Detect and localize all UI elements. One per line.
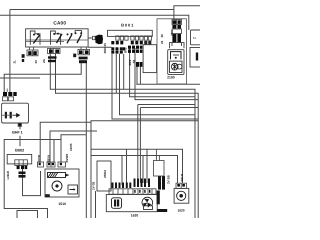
svg-text:1V0B: 1V0B <box>37 154 41 162</box>
G2 dark label rows <box>48 56 57 62</box>
G1 side label marks <box>22 54 25 62</box>
rotated wire code labels <box>6 29 184 190</box>
wire B001 drop x123.7 <box>123 54 125 90</box>
svg-text:B002: B002 <box>15 148 24 152</box>
CA00 switch lever 3 <box>67 35 72 44</box>
svg-text:B02: B02 <box>124 47 128 53</box>
G3 side mark <box>73 54 76 58</box>
wire B001 drop x129.6 <box>130 48 195 97</box>
wire left edge y78 <box>0 77 40 79</box>
wire y47 link under connector <box>88 46 111 48</box>
1510 pin contacts <box>39 163 62 165</box>
svg-text:BHF 1: BHF 1 <box>12 131 22 135</box>
wire 1510 feed x40.2 <box>40 122 91 162</box>
CA00 pin group G1 <box>27 50 38 56</box>
svg-text:1620: 1620 <box>131 214 139 218</box>
wire 1510 feed x50 <box>50 131 97 162</box>
1510 pump hub <box>55 184 58 187</box>
pump 1510 pin boxes <box>38 162 66 167</box>
svg-text:24: 24 <box>160 40 164 44</box>
wire 1620 feed drop x122 <box>121 156 123 186</box>
G2 pin contacts <box>49 50 59 53</box>
wire top-left vertical feed <box>9 10 11 93</box>
wire BHF1 out <box>19 126 21 146</box>
1620 fan icon circle <box>142 197 153 208</box>
svg-text:2NR: 2NR <box>103 47 107 54</box>
wire 1620 feed drop x126.5 <box>126 149 128 185</box>
wire 1620 feed drop x147 <box>146 149 148 183</box>
vertical dark code strip 1 <box>158 176 165 190</box>
1620 connector marks <box>134 190 150 193</box>
svg-text:2V: 2V <box>34 60 38 64</box>
1620 motor icon <box>112 198 122 209</box>
wire B001 drop x112 <box>112 54 198 119</box>
CA00 switch lever 4 <box>77 34 82 43</box>
BHF1 internal wire <box>2 114 14 116</box>
pump 1510 body box <box>45 169 79 197</box>
narrow box feed stubs <box>156 149 159 160</box>
heater motor pin contacts <box>177 184 185 187</box>
heater motor hub <box>179 194 183 198</box>
svg-text:1510: 1510 <box>58 202 66 206</box>
CA00 switch sub-box 2 <box>51 31 61 45</box>
B001 lower connector row 2 (black) <box>111 47 125 53</box>
wire CA00 pin drop B <box>56 54 199 219</box>
fuse box F right edge upper <box>191 30 202 45</box>
B002 dark label block <box>19 172 26 178</box>
CA00 contact dots 3 <box>67 33 73 35</box>
fan assembly 1620 connector row <box>109 189 156 195</box>
B001 pin row <box>116 36 152 40</box>
1620 wire-code dashes above connector <box>112 179 151 189</box>
CA00 switch bracket 4 <box>75 31 82 34</box>
svg-text:1V 0B: 1V 0B <box>92 181 96 190</box>
2100 fan circles <box>170 61 182 72</box>
svg-text:36: 36 <box>160 34 164 38</box>
CA00 contact dots 2 <box>53 33 59 35</box>
wire 1620 feed drop x143 <box>142 156 144 184</box>
wire motor feed x177.5 <box>91 156 178 184</box>
svg-text:LNGR: LNGR <box>6 170 10 179</box>
svg-text:Fu: Fu <box>193 36 197 40</box>
wire B001 drop x133.8 <box>135 48 198 100</box>
B001 connector row 1 (black) <box>111 41 151 44</box>
1510 corner blob <box>45 194 50 197</box>
wire BHF1 stub x7.2 <box>6 89 8 93</box>
ignition switch CA00 box <box>26 29 89 47</box>
relay BHF1 box <box>2 103 29 123</box>
wire second horizontal rail <box>0 15 189 30</box>
wire enclosure left/top <box>91 121 198 218</box>
G1 pin contacts <box>28 51 37 55</box>
BHF1 pin boxes <box>2 97 13 101</box>
wire 1510 feed x61 <box>61 135 86 162</box>
wire B001 drop x119.5 <box>120 54 196 115</box>
wire top horizontal rail <box>10 9 174 11</box>
narrow box above strip <box>154 161 165 177</box>
2100 yoke dot <box>175 57 177 59</box>
svg-text:1B0S: 1B0S <box>69 143 73 151</box>
battery B002 box <box>7 155 32 164</box>
CA00 internal bus wire <box>26 40 89 42</box>
CA00 switch lever 1 <box>33 35 40 44</box>
G1 stubs <box>29 47 33 50</box>
wire tallbox drop <box>95 191 97 218</box>
2100 magnet yoke symbol <box>171 52 182 60</box>
BHF1 contact bars <box>5 112 12 119</box>
inline connector pair near white box <box>136 62 142 67</box>
wire 1620 feed x137.8 <box>137 105 139 184</box>
svg-text:CA00: CA00 <box>53 20 66 25</box>
wire CA00 pin drop A <box>50 48 195 218</box>
1510 sub box <box>68 185 78 194</box>
CA00 pin group G2 <box>48 49 61 54</box>
wire drop x86.7 to bottom <box>85 62 87 218</box>
relay white box under B001 <box>143 45 157 73</box>
svg-text:BVMR: BVMR <box>65 153 69 163</box>
fan assembly 1620 body box <box>106 195 157 212</box>
wire bus y139.5 <box>4 140 61 219</box>
svg-text:2G: 2G <box>42 58 46 63</box>
1620 motor icon bars <box>114 200 119 207</box>
svg-text:2V: 2V <box>103 43 107 47</box>
1510 manifold hatch <box>48 173 58 177</box>
wire B001 drop x116.3 <box>115 54 117 93</box>
wire B001 drop x137 <box>136 62 138 84</box>
1620 fan base rect <box>144 206 153 210</box>
fuse box B001 strip <box>108 30 153 36</box>
1620 fan blades <box>143 199 152 208</box>
svg-text:2100: 2100 <box>167 75 175 79</box>
svg-text:2V BB: 2V BB <box>166 174 170 184</box>
wire top-right corner to edge <box>174 6 200 20</box>
svg-text:2L: 2L <box>13 60 17 64</box>
B002 connector black squares <box>17 166 28 169</box>
CA00 contact dots 1 <box>33 33 39 36</box>
CA00 switch lever 2 <box>57 34 63 43</box>
wire stubs into white box <box>146 41 150 45</box>
1510 sub box arrow <box>70 188 76 192</box>
heater motor circle <box>177 191 186 200</box>
BHF1 output pin <box>18 123 21 126</box>
relay BHF1 connector row <box>3 92 17 96</box>
wire B001 drop x140.4 <box>139 62 141 84</box>
heater motor pins <box>176 183 187 188</box>
wire B002 loop <box>23 168 41 196</box>
B002 connector cells <box>15 160 28 166</box>
G3 stubs <box>81 47 86 49</box>
1510 manifold arrow <box>65 174 70 177</box>
vertical dark code strip 2 <box>157 191 160 205</box>
wire motor feed x182.5 <box>91 149 183 183</box>
svg-text:2BA: 2BA <box>170 29 174 36</box>
svg-text:2R: 2R <box>132 59 136 64</box>
1510 manifold bar <box>48 173 66 178</box>
2100 plug housing <box>170 43 184 49</box>
svg-text:2NRA: 2NRA <box>103 169 107 178</box>
2100 motor body <box>168 50 184 75</box>
B001 right connector rows (black) <box>128 46 142 53</box>
G3 pin contacts <box>79 50 89 54</box>
heater motor box <box>174 188 189 203</box>
2100 connector stack pins <box>172 20 182 34</box>
wire inline connector drop <box>136 83 200 85</box>
wire 1510 feed x54 <box>53 140 55 162</box>
G3 dark label block <box>79 57 88 64</box>
inline connector symbol (CA00 to harness) <box>93 35 104 45</box>
svg-text:B001: B001 <box>121 23 134 28</box>
relay box in fan enclosure <box>97 161 111 191</box>
1510 pump circle <box>52 181 62 191</box>
2100 connector stack black cells <box>172 20 181 42</box>
right lower box label <box>196 53 198 61</box>
wire 1620 feed x140.4 <box>139 108 141 184</box>
svg-text:2B0A: 2B0A <box>47 154 51 163</box>
right edge lower box <box>190 48 201 68</box>
wire CA00 to inline connector <box>88 37 92 39</box>
svg-text:1620: 1620 <box>177 209 184 213</box>
M002 label <box>157 209 167 212</box>
CA00 switch sub-box 1 <box>30 31 40 45</box>
svg-text:BB M: BB M <box>180 173 184 181</box>
wire left bus y75 <box>4 62 81 92</box>
engine fan unit 2100 enclosure <box>157 19 186 84</box>
CA00 contact dots 4 <box>75 32 83 34</box>
CA00 pin group G3 <box>78 49 90 54</box>
wire y107.5 branch <box>138 105 198 108</box>
BHF1 arrow symbol <box>14 114 20 117</box>
ground loop box bottom-left <box>17 211 38 219</box>
